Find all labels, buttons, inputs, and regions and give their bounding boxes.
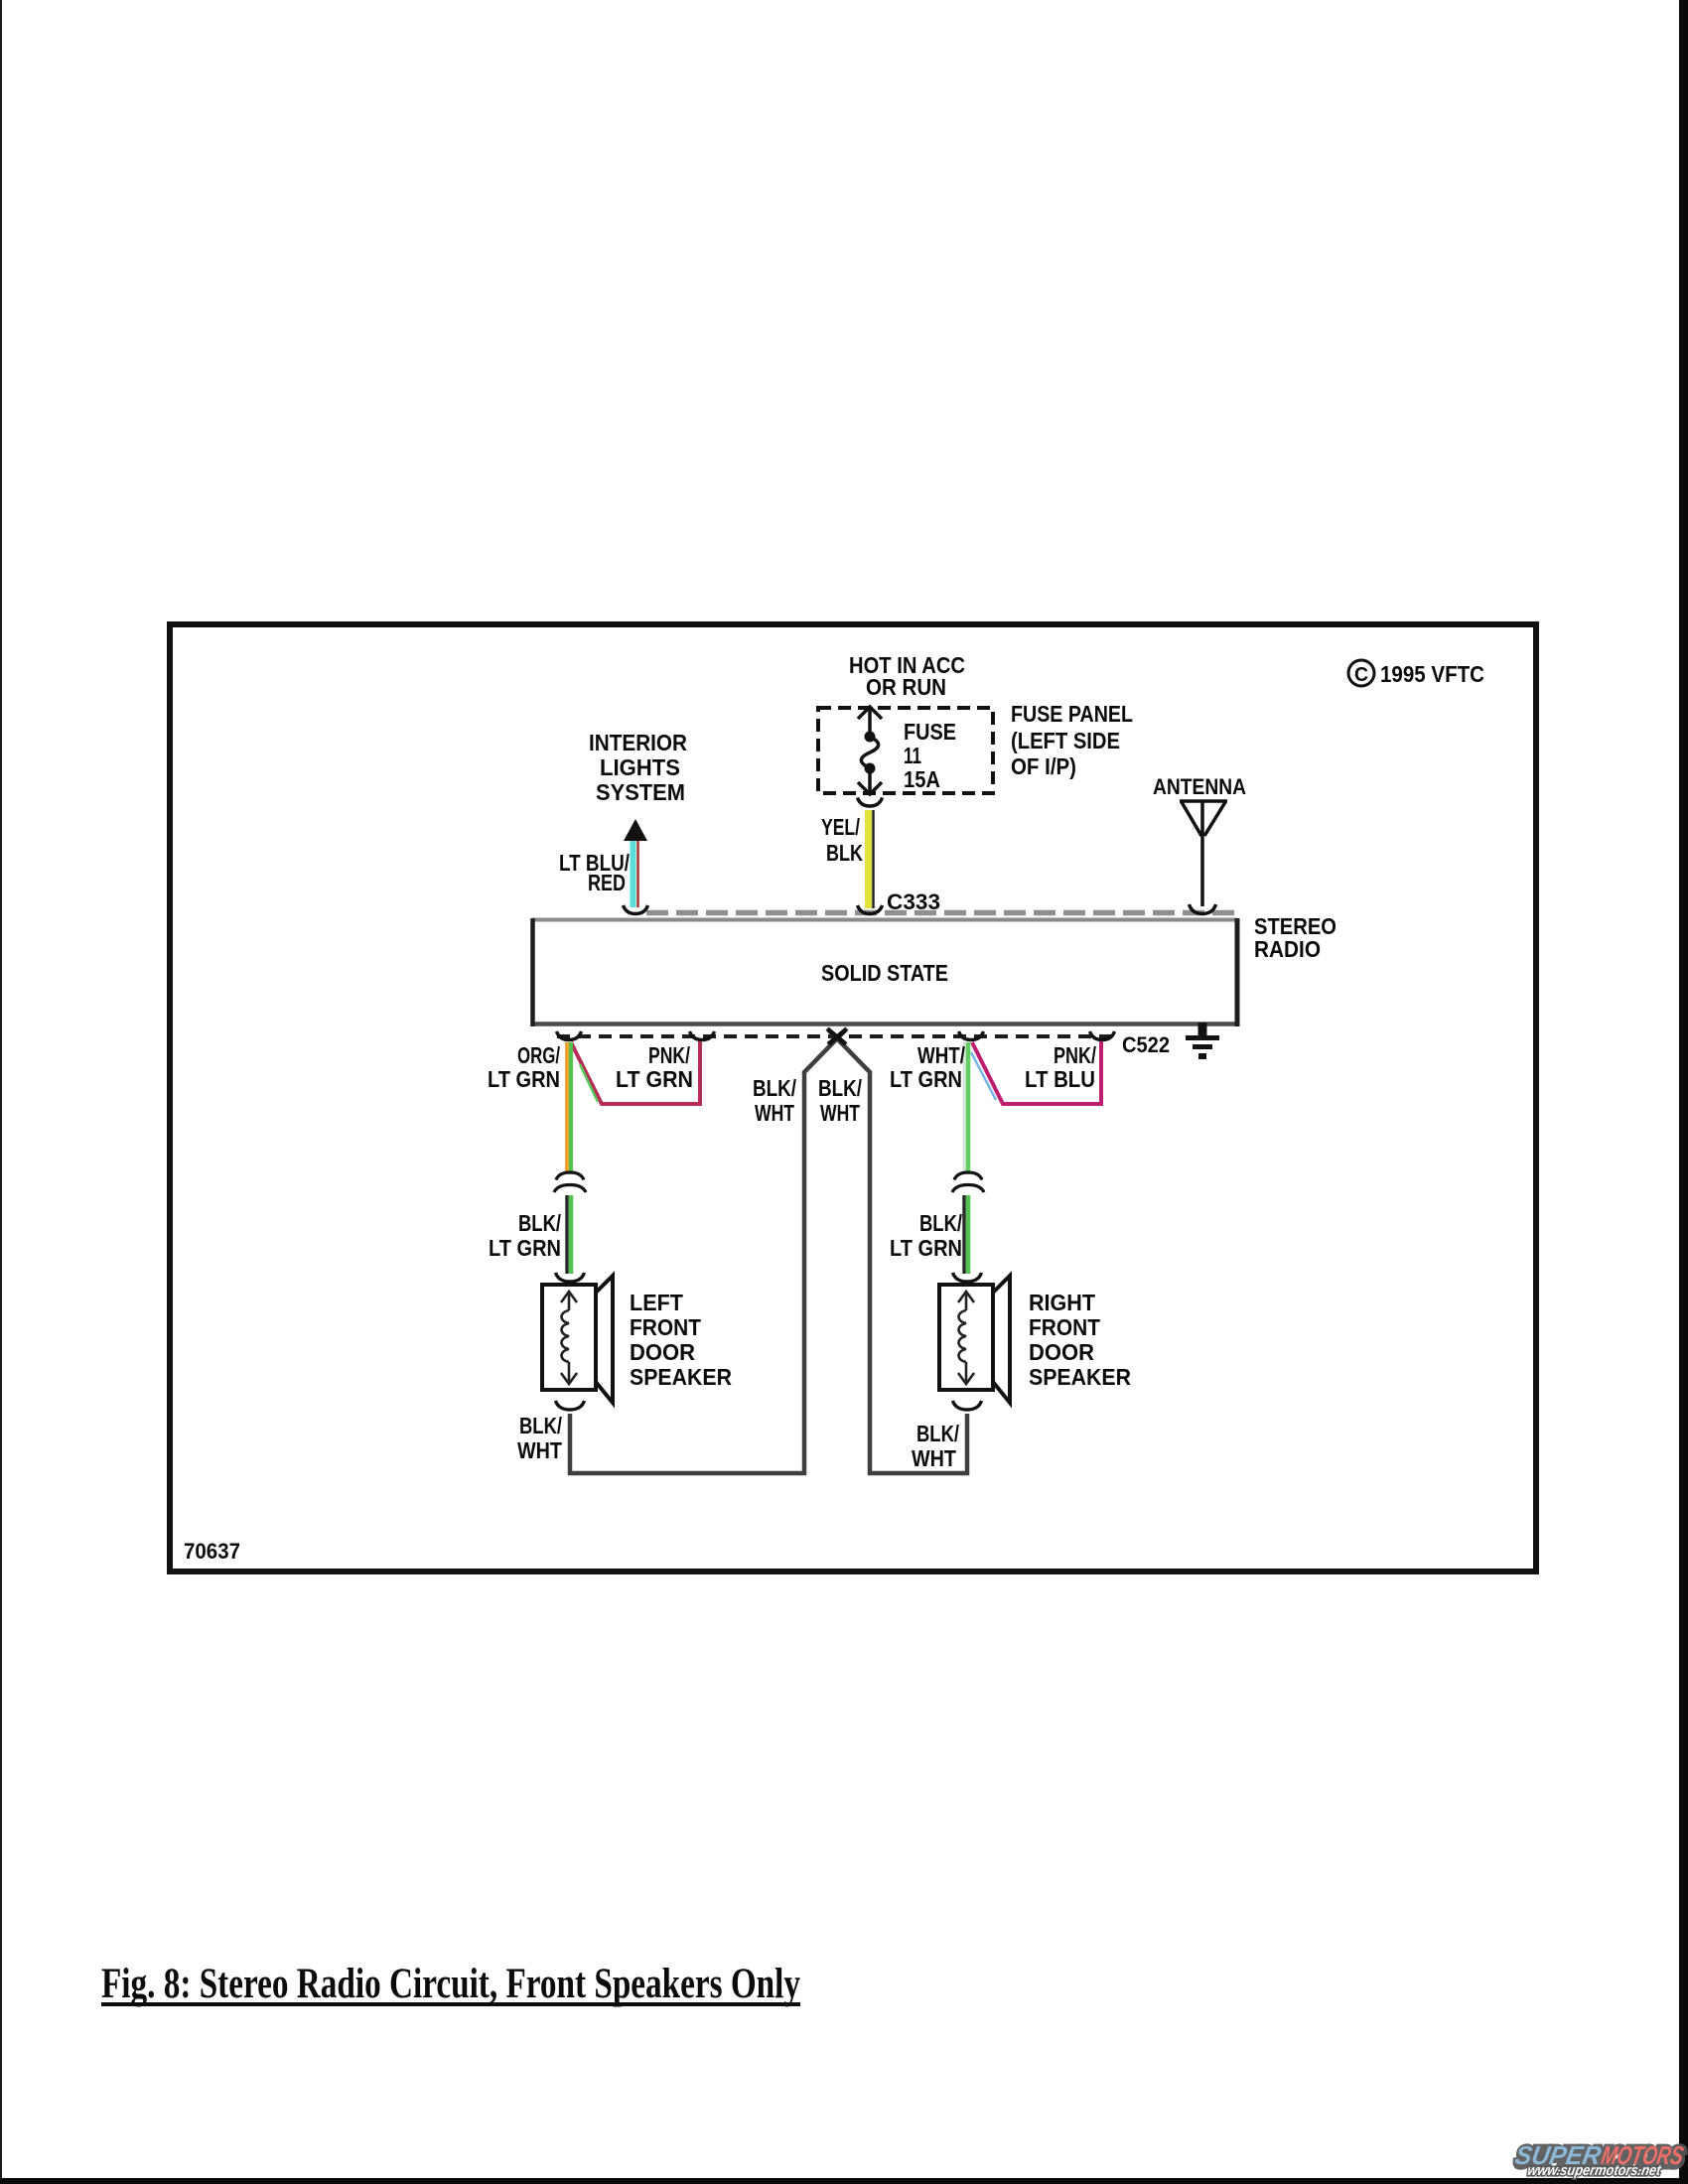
C522 dashed connector line — [557, 1034, 1118, 1038]
svg-text:RADIO: RADIO — [1254, 936, 1321, 962]
svg-text:C: C — [1354, 664, 1368, 686]
pin ORG/LT GRN — [557, 1031, 582, 1040]
ground at C522 — [1198, 1023, 1207, 1036]
supermotors watermark — [1511, 2140, 1687, 2179]
wire BLK/LT GRN left — [565, 1195, 569, 1274]
wire WHT/LT GRN — [963, 1042, 966, 1172]
svg-text:LT BLU: LT BLU — [1025, 1066, 1095, 1092]
wire YEL/BLK — [865, 810, 872, 908]
svg-text:INTERIOR: INTERIOR — [589, 730, 687, 755]
svg-text:LT GRN: LT GRN — [616, 1066, 693, 1092]
svg-text:FUSE: FUSE — [904, 719, 956, 745]
svg-text:PNK/: PNK/ — [648, 1042, 690, 1068]
svg-text:LT GRN: LT GRN — [890, 1235, 962, 1261]
svg-text:ORG/: ORG/ — [517, 1042, 560, 1068]
svg-text:15A: 15A — [904, 766, 940, 792]
svg-text:FRONT: FRONT — [1029, 1314, 1100, 1340]
svg-text:ANTENNA: ANTENNA — [1153, 774, 1246, 799]
pin WHT/LT GRN — [959, 1031, 984, 1040]
left front door speaker — [542, 1276, 613, 1403]
antenna — [1180, 801, 1227, 906]
inline connector left (two arches) — [556, 1172, 584, 1180]
svg-text:Fig. 8: Stereo Radio Circuit,: Fig. 8: Stereo Radio Circuit, Front Spea… — [101, 1961, 800, 2007]
svg-text:OF I/P): OF I/P) — [1011, 753, 1076, 779]
svg-text:C333: C333 — [887, 889, 940, 914]
wire BLK/WHT right loop (radio to right speaker return) — [827, 1028, 967, 1473]
connector pin under fuse panel — [858, 798, 883, 807]
svg-text:WHT: WHT — [517, 1437, 562, 1463]
svg-text:(LEFT SIDE: (LEFT SIDE — [1011, 728, 1120, 753]
wire BLK/WHT left loop (radio to left speaker return) — [570, 1028, 847, 1473]
svg-text:LEFT: LEFT — [630, 1290, 683, 1315]
svg-text:RIGHT: RIGHT — [1029, 1290, 1095, 1315]
svg-text:11: 11 — [904, 743, 921, 768]
svg-text:BLK/: BLK/ — [518, 1210, 561, 1236]
svg-text:WHT: WHT — [820, 1100, 860, 1126]
wire LT BLU/RED — [631, 841, 636, 907]
pin PNK/LT GRN — [690, 1031, 715, 1040]
fuse F11 15A symbol — [858, 707, 882, 794]
svg-text:DOOR: DOOR — [630, 1339, 695, 1365]
wire PNK/LT GRN (pin2 loop) — [571, 1041, 700, 1104]
svg-text:LT GRN: LT GRN — [489, 1235, 561, 1261]
svg-text:OR RUN: OR RUN — [866, 674, 946, 700]
svg-text:SOLID STATE: SOLID STATE — [821, 960, 948, 986]
svg-text:BLK/: BLK/ — [916, 1421, 959, 1446]
copyright 1995 VFTC — [1348, 660, 1374, 686]
svg-text:LIGHTS: LIGHTS — [600, 754, 680, 780]
wire ORG/LT GRN — [565, 1042, 569, 1172]
wire PNK/LT BLU (pin5 loop) — [972, 1041, 1101, 1104]
svg-text:www.supermotors.net: www.supermotors.net — [1526, 2162, 1663, 2179]
svg-text:RED: RED — [588, 870, 626, 895]
svg-text:LT GRN: LT GRN — [890, 1066, 962, 1092]
pin speaker right top — [953, 1273, 982, 1282]
svg-text:BLK/: BLK/ — [753, 1075, 796, 1101]
svg-text:BLK/: BLK/ — [919, 1210, 962, 1236]
svg-text:SYSTEM: SYSTEM — [596, 779, 685, 805]
svg-text:BLK/: BLK/ — [818, 1075, 862, 1101]
pin PNK/LT BLU — [1090, 1031, 1115, 1040]
svg-text:WHT/: WHT/ — [917, 1042, 965, 1068]
svg-text:BLK/: BLK/ — [519, 1413, 562, 1438]
svg-text:1995 VFTC: 1995 VFTC — [1380, 661, 1484, 687]
svg-text:LT GRN: LT GRN — [488, 1066, 560, 1092]
svg-text:C522: C522 — [1122, 1032, 1170, 1057]
svg-text:FRONT: FRONT — [630, 1314, 701, 1340]
arrow to interior lights system — [624, 819, 647, 841]
svg-text:70637: 70637 — [184, 1539, 240, 1564]
fuse panel dashed box — [818, 708, 993, 793]
pin C333 antenna — [1190, 904, 1216, 914]
pin speaker left top — [556, 1273, 585, 1282]
pin speaker right bottom — [953, 1401, 982, 1410]
svg-text:PNK/: PNK/ — [1054, 1042, 1096, 1068]
svg-text:SPEAKER: SPEAKER — [1029, 1364, 1131, 1390]
svg-text:DOOR: DOOR — [1029, 1339, 1094, 1365]
pin C333 left (LT BLU/RED) — [624, 905, 648, 914]
pin speaker left bottom — [556, 1401, 585, 1410]
right front door speaker — [939, 1276, 1010, 1403]
svg-text:BLK: BLK — [826, 840, 863, 866]
svg-text:WHT: WHT — [912, 1445, 956, 1471]
svg-text:SPEAKER: SPEAKER — [630, 1364, 732, 1390]
svg-text:FUSE PANEL: FUSE PANEL — [1011, 701, 1133, 727]
crossover X at radio pin — [828, 1029, 846, 1044]
wire BLK/LT GRN right — [962, 1195, 966, 1274]
stereo radio solid state box — [534, 920, 1235, 1024]
svg-text:YEL/: YEL/ — [821, 814, 860, 840]
inline connector right (two arches) — [954, 1172, 982, 1180]
svg-text:WHT: WHT — [755, 1100, 794, 1126]
pin C333 mid (YEL/BLK) — [858, 905, 883, 914]
C333 dashed connector line — [646, 910, 1238, 916]
